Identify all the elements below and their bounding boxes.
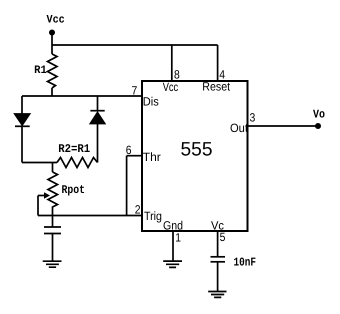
svg-text:2: 2 [135, 202, 141, 216]
ground (pin 1) [163, 261, 182, 267]
capacitor C1 [44, 226, 61, 228]
diode D2 (cathode up) [90, 110, 104, 112]
wire pin 3 Out [248, 125, 319, 127]
ground (pin 5) [208, 292, 226, 298]
wire R1 bottom to dis rail [51, 88, 53, 96]
wire pin 5 Vc [217, 231, 219, 257]
svg-text:555: 555 [181, 139, 213, 161]
IC U1 555 [142, 81, 248, 231]
svg-text:1: 1 [175, 231, 181, 245]
wire Vcc dot down to R1 top [51, 33, 53, 54]
wire bottom rail left part [22, 162, 57, 164]
svg-text:3: 3 [250, 110, 256, 124]
svg-text:6: 6 [126, 143, 132, 157]
capacitor C2 [211, 256, 226, 258]
svg-text:Vcc: Vcc [163, 80, 179, 94]
svg-text:Reset: Reset [202, 80, 230, 94]
svg-text:Vo: Vo [313, 107, 325, 121]
svg-text:7: 7 [132, 84, 138, 98]
wire Vcc rail to pins 8 and 4 [52, 44, 218, 46]
wire Thr-Trig link [126, 156, 128, 216]
svg-text:Thr: Thr [143, 150, 161, 164]
wire C2 to ground [217, 262, 219, 292]
svg-text:Out: Out [230, 121, 249, 135]
ground (timing cap) [43, 261, 62, 267]
resistor R1 [48, 54, 58, 88]
wire D2 to bottom rail [97, 124, 99, 163]
Rpot wiper arrow [38, 195, 44, 197]
wire pin 4 Reset [217, 45, 219, 81]
wire D1 to bottom rail [21, 126, 23, 162]
resistor R2 [57, 158, 98, 168]
svg-text:R1: R1 [34, 65, 47, 77]
wire Thr stub [127, 155, 142, 157]
node Vcc junction dot [49, 30, 55, 36]
wire wiper down to trig net [37, 196, 39, 216]
wire dis rail y=96 [22, 95, 142, 97]
diode D1 (cathode down) [15, 114, 30, 125]
wire Rpot bottom to C1 [52, 216, 54, 228]
wire rail to Rpot top [52, 163, 54, 173]
wire right branch to D2 [97, 96, 99, 111]
wire left branch to D1 [21, 96, 23, 114]
svg-text:Vcc: Vcc [47, 14, 65, 26]
svg-text:10nF: 10nF [234, 256, 257, 270]
wire pin 8 Vcc [171, 45, 173, 81]
wire C1 to ground [52, 234, 54, 262]
svg-text:5: 5 [220, 230, 226, 244]
wire pin 1 Gnd [172, 231, 174, 261]
svg-text:Rpot: Rpot [62, 183, 86, 197]
node Vo dot [315, 123, 321, 129]
wire Trig net [38, 215, 142, 217]
potentiometer Rpot resistor body [48, 172, 58, 216]
svg-text:R2=R1: R2=R1 [58, 142, 90, 156]
svg-text:Trig: Trig [144, 209, 162, 223]
svg-text:Dis: Dis [143, 95, 159, 109]
